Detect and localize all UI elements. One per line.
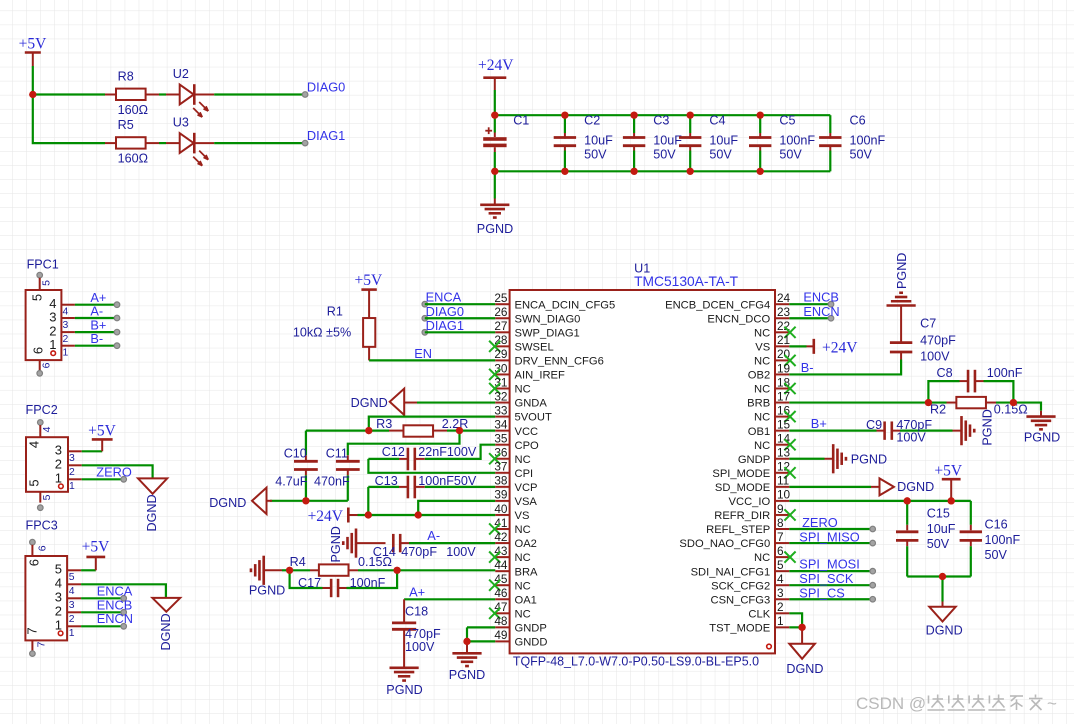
svg-text:A-: A- xyxy=(90,303,103,318)
svg-text:OB1: OB1 xyxy=(748,426,770,438)
U1 pin 37 CPI xyxy=(494,460,533,480)
U1 pin 23 ENCN_DCO xyxy=(707,305,790,325)
svg-text:100nF: 100nF xyxy=(779,133,815,147)
U1 pin 10 VCC_IO xyxy=(729,488,791,508)
svg-text:DGND: DGND xyxy=(209,496,246,510)
svg-text:10uF: 10uF xyxy=(584,133,613,147)
svg-text:VS: VS xyxy=(515,510,530,522)
svg-text:CSN_CFG3: CSN_CFG3 xyxy=(711,594,771,606)
svg-text:NC: NC xyxy=(515,580,531,592)
svg-text:46: 46 xyxy=(494,586,508,600)
svg-text:3: 3 xyxy=(49,309,56,324)
svg-text:50V: 50V xyxy=(985,548,1008,562)
power port +5V (R1) xyxy=(355,272,383,318)
wire B+ (pin 15 OB1) xyxy=(789,416,876,431)
svg-text:ENCN: ENCN xyxy=(97,611,133,626)
svg-text:2: 2 xyxy=(63,334,69,345)
svg-text:SWSEL: SWSEL xyxy=(515,341,554,353)
wire 5VOUT (pin 33) xyxy=(369,417,496,431)
FPC1 pin name 5 (inside) xyxy=(30,294,45,301)
svg-text:ZERO: ZERO xyxy=(96,464,132,479)
svg-text:50V: 50V xyxy=(927,537,950,551)
svg-text:DGND: DGND xyxy=(351,396,388,410)
net label A+ (OA1) xyxy=(409,584,425,599)
svg-text:ENCA: ENCA xyxy=(97,584,133,599)
capacitor C2 10uF xyxy=(554,113,613,171)
U1 pin 47 NC xyxy=(489,600,531,620)
svg-text:C17: C17 xyxy=(298,576,321,590)
resistor R8 xyxy=(105,70,159,118)
svg-text:5: 5 xyxy=(27,479,42,486)
svg-text:6: 6 xyxy=(27,559,42,566)
svg-text:C16: C16 xyxy=(985,518,1008,532)
svg-text:23: 23 xyxy=(777,305,791,319)
net stub DIAG0 to pin 26 xyxy=(422,304,495,321)
svg-text:FPC1: FPC1 xyxy=(27,258,59,272)
ground PGND (R4) xyxy=(249,556,285,598)
wire +24V top rail xyxy=(495,114,831,116)
U1 pin 45 NC xyxy=(489,572,531,592)
U1 pin 27 SWP_DIAG1 xyxy=(494,319,579,339)
svg-text:VCC_IO: VCC_IO xyxy=(729,496,771,508)
svg-text:100V: 100V xyxy=(920,349,950,363)
net stub ENCB (pin 24) xyxy=(789,290,839,307)
svg-text:PGND: PGND xyxy=(1024,431,1060,445)
svg-text:TST_MODE: TST_MODE xyxy=(709,622,770,634)
ground DGND (C10/C11) xyxy=(209,488,272,514)
svg-text:C12: C12 xyxy=(382,445,405,459)
svg-text:PGND: PGND xyxy=(477,222,513,236)
svg-text:DIAG0: DIAG0 xyxy=(307,79,345,94)
U1 pin 39 VSA xyxy=(494,488,537,508)
svg-text:PGND: PGND xyxy=(386,683,422,697)
net stub SPI_MOSI (pin 5) xyxy=(789,557,875,574)
capacitor C12 22nF (CPO-CPI) xyxy=(368,445,495,473)
svg-text:11: 11 xyxy=(777,474,789,488)
wire R5 to U3 xyxy=(159,142,166,144)
svg-text:40: 40 xyxy=(494,502,508,516)
svg-text:OA1: OA1 xyxy=(515,594,537,606)
node DIAG0 xyxy=(302,79,345,97)
svg-text:BRA: BRA xyxy=(515,566,539,578)
ground PGND (R2) xyxy=(1013,403,1060,445)
svg-text:470nF: 470nF xyxy=(314,475,350,489)
svg-text:AIN_IREF: AIN_IREF xyxy=(515,370,566,382)
svg-text:FPC2: FPC2 xyxy=(26,403,58,417)
svg-text:+5V: +5V xyxy=(19,36,47,53)
node junction +5V rail xyxy=(29,91,36,98)
wire PGND bottom rail xyxy=(495,170,831,172)
wire C15/C16 ground rail xyxy=(907,575,971,577)
svg-text:DIAG0: DIAG0 xyxy=(426,304,464,319)
svg-text:DIAG1: DIAG1 xyxy=(307,128,345,143)
svg-text:6: 6 xyxy=(38,545,49,551)
svg-text:R5: R5 xyxy=(118,118,134,132)
svg-text:NC: NC xyxy=(754,384,770,396)
U1 pin 40 VS xyxy=(494,502,529,522)
capacitor C7 470pF xyxy=(890,306,956,364)
svg-text:4: 4 xyxy=(42,426,53,432)
capacitor C1 (polarized bulk) xyxy=(483,113,529,171)
svg-text:C8: C8 xyxy=(937,366,953,380)
svg-text:3: 3 xyxy=(777,586,784,600)
connector FPC3 body xyxy=(25,556,67,640)
svg-text:3: 3 xyxy=(69,453,75,464)
wire GNDP pin 48 xyxy=(467,626,495,628)
power port +24V (VS) xyxy=(308,508,369,526)
svg-text:SCK_CFG2: SCK_CFG2 xyxy=(711,580,770,592)
capacitor C6 100nF xyxy=(819,113,885,171)
svg-text:100nF: 100nF xyxy=(985,533,1021,547)
U1 pin 34 VCC xyxy=(494,417,538,437)
wire EN (R1 to pin 29) xyxy=(369,346,495,361)
svg-text:+24V: +24V xyxy=(308,508,344,525)
wire DGND rail (C10/C11) xyxy=(270,500,348,502)
svg-text:100V: 100V xyxy=(405,640,435,654)
svg-text:42: 42 xyxy=(494,530,507,544)
node junction R2 left xyxy=(925,399,932,406)
svg-text:7: 7 xyxy=(25,627,40,634)
wire B- (pin 19 OB2 to C7) xyxy=(789,360,901,375)
svg-text:0.15Ω: 0.15Ω xyxy=(358,555,392,569)
ground DGND (FPC3) xyxy=(152,598,180,651)
U1 pin 38 VCP xyxy=(494,474,537,494)
svg-text:50V: 50V xyxy=(584,148,607,162)
svg-text:SDI_NAI_CFG1: SDI_NAI_CFG1 xyxy=(691,566,771,578)
capacitor C3 10uF xyxy=(623,113,682,171)
svg-text:2: 2 xyxy=(69,614,75,625)
svg-text:50V: 50V xyxy=(709,148,732,162)
svg-text:1: 1 xyxy=(69,628,75,639)
FPC1 pin 2 wire / net B+ xyxy=(49,318,120,345)
svg-text:R2: R2 xyxy=(930,402,946,416)
svg-text:6: 6 xyxy=(31,347,46,354)
svg-text:4: 4 xyxy=(55,576,62,591)
capacitor C11 470nF xyxy=(314,446,360,500)
wire +5V to R8 xyxy=(33,93,105,95)
net label A- (OA2) xyxy=(427,528,440,543)
U1 pin 32 GNDA xyxy=(494,389,547,409)
svg-text:22nF100V: 22nF100V xyxy=(418,445,477,459)
svg-text:GNDD: GNDD xyxy=(515,637,548,649)
svg-text:C9: C9 xyxy=(866,418,882,432)
svg-text:REFR_DIR: REFR_DIR xyxy=(714,510,770,522)
svg-text:CLK: CLK xyxy=(748,608,770,620)
svg-text:32: 32 xyxy=(494,389,507,403)
FPC2 pin name 5 (inside) xyxy=(27,479,42,486)
ground DGND (GNDA pin 32) xyxy=(351,389,496,415)
svg-text:GNDA: GNDA xyxy=(515,398,548,410)
svg-text:470pF: 470pF xyxy=(401,545,437,559)
power port +24V (input) xyxy=(478,57,514,115)
capacitor C9 470pF xyxy=(866,418,953,445)
resistor R3 xyxy=(369,417,469,436)
svg-text:R3: R3 xyxy=(376,417,392,431)
svg-text:2: 2 xyxy=(55,604,62,619)
ground DGND (CLK/TST_MODE) xyxy=(786,627,823,676)
svg-text:39: 39 xyxy=(494,488,507,502)
svg-text:C6: C6 xyxy=(850,113,866,127)
connector FPC3 designator xyxy=(26,518,58,532)
net stub ENCA to pin 25 xyxy=(422,290,495,307)
U1 pin 46 OA1 xyxy=(494,586,537,606)
svg-text:OA2: OA2 xyxy=(515,538,537,550)
svg-text:PGND: PGND xyxy=(329,526,343,562)
FPC3 pin 2 wire / net ENCB xyxy=(55,598,132,626)
svg-text:1: 1 xyxy=(63,348,69,359)
svg-text:5VOUT: 5VOUT xyxy=(515,412,552,424)
FPC3 pin name 7 (inside) xyxy=(25,627,40,634)
ground DGND (FPC2) xyxy=(138,478,167,531)
svg-text:SPI_MOSI: SPI_MOSI xyxy=(799,557,859,572)
wire R8 to U2 xyxy=(159,93,166,95)
IC U1 part number TMC5130A-TA-T xyxy=(634,274,739,289)
ground PGND (C18) xyxy=(386,668,422,697)
svg-text:10: 10 xyxy=(777,488,791,502)
svg-text:+5V: +5V xyxy=(934,462,962,479)
U1 pin 44 BRA xyxy=(494,558,538,578)
svg-text:+5V: +5V xyxy=(82,539,110,556)
svg-text:C10: C10 xyxy=(284,446,307,460)
watermark CSDN xyxy=(856,694,1057,713)
svg-text:B-: B- xyxy=(801,360,814,375)
capacitor C5 100nF xyxy=(749,113,815,171)
svg-text:+24V: +24V xyxy=(822,339,858,356)
svg-text:10kΩ ±5%: 10kΩ ±5% xyxy=(293,326,351,340)
svg-text:1: 1 xyxy=(69,481,75,492)
svg-text:470pF: 470pF xyxy=(920,333,956,347)
svg-text:OB2: OB2 xyxy=(748,370,770,382)
U1 pin 41 NC xyxy=(489,516,531,536)
FPC2 pin 3 wire to +5V xyxy=(55,443,102,464)
wire GNDP down xyxy=(466,627,468,641)
svg-text:C15: C15 xyxy=(927,507,950,521)
ground DGND (pin 11 SD_MODE) xyxy=(789,478,934,495)
U1 pin 48 GNDP xyxy=(494,614,546,634)
svg-text:48: 48 xyxy=(494,614,508,628)
resistor R1 xyxy=(293,305,375,361)
U1 pin 8 REFL_STEP xyxy=(706,516,789,536)
FPC1 pin 1 wire / net B- xyxy=(49,331,120,358)
svg-text:B-: B- xyxy=(90,331,103,346)
net stub SPI_CS (pin 3) xyxy=(789,585,875,602)
U1 pin 16 NC xyxy=(754,403,796,423)
svg-text:2: 2 xyxy=(777,600,784,614)
U1 pin 29 DRV_ENN_CFG6 xyxy=(494,347,603,367)
svg-text:PGND: PGND xyxy=(851,452,887,466)
svg-text:5: 5 xyxy=(69,572,75,583)
svg-text:SPI_SCK: SPI_SCK xyxy=(799,571,854,586)
svg-text:19: 19 xyxy=(777,361,790,375)
svg-text:~: ~ xyxy=(1047,694,1057,713)
svg-text:50V: 50V xyxy=(850,148,873,162)
ground PGND (C9) xyxy=(953,409,995,445)
svg-text:7: 7 xyxy=(777,530,784,544)
svg-text:TQFP-48_L7.0-W7.0-P0.50-LS9.0-: TQFP-48_L7.0-W7.0-P0.50-LS9.0-BL-EP5.0 xyxy=(513,654,759,668)
ground PGND (pin 13 GNDP) xyxy=(789,444,887,473)
svg-text:44: 44 xyxy=(494,558,508,572)
node junction VCC xyxy=(456,427,463,434)
svg-text:1: 1 xyxy=(49,337,56,352)
wire VCC branch to C11 xyxy=(348,431,460,456)
node junction R4 left xyxy=(286,567,293,574)
svg-text:3: 3 xyxy=(63,320,69,331)
FPC3 pin 5 wire to +5V xyxy=(55,562,96,583)
U1 pin 3 CSN_CFG3 xyxy=(711,586,790,606)
svg-text:ENCA_DCIN_CFG5: ENCA_DCIN_CFG5 xyxy=(515,299,616,311)
node junction CLK/TST_MODE xyxy=(799,624,806,631)
wire BRA to pin 44 xyxy=(397,569,495,571)
wire BRB (pin 17) xyxy=(789,401,928,403)
capacitor C13 100nF (VCP-VS) xyxy=(368,474,495,515)
svg-text:4: 4 xyxy=(63,307,69,318)
FPC1 pin 3 wire / net A- xyxy=(49,303,120,330)
node junction R2 right xyxy=(1010,399,1017,406)
svg-text:4: 4 xyxy=(27,441,42,448)
svg-text:34: 34 xyxy=(494,417,508,431)
svg-text:7: 7 xyxy=(37,641,48,647)
capacitor C4 10uF xyxy=(679,113,738,171)
capacitor C10 4.7uF xyxy=(275,431,318,501)
svg-text:100V: 100V xyxy=(896,431,926,445)
node junction R4 right xyxy=(394,567,401,574)
svg-text:2: 2 xyxy=(69,467,75,478)
svg-text:SPI_MODE: SPI_MODE xyxy=(712,468,770,480)
U1 pin 11 SD_MODE xyxy=(715,474,789,494)
svg-text:50V: 50V xyxy=(779,148,802,162)
U1 pin 5 SDI_NAI_CFG1 xyxy=(691,558,790,578)
FPC1 pin1 marker xyxy=(51,351,56,356)
svg-text:SWP_DIAG1: SWP_DIAG1 xyxy=(515,327,580,339)
svg-text:49: 49 xyxy=(494,628,507,642)
power port +5V (FPC3) xyxy=(82,539,110,571)
node junction C15 xyxy=(904,497,911,504)
svg-text:DGND: DGND xyxy=(145,494,159,531)
svg-text:PGND: PGND xyxy=(249,583,285,597)
FPC1 pin name 6 (inside) xyxy=(31,347,46,354)
FPC3 pin1 marker xyxy=(58,631,63,636)
svg-text:C4: C4 xyxy=(709,113,725,127)
FPC2 pin 1 wire xyxy=(55,471,127,493)
svg-text:C18: C18 xyxy=(405,605,428,619)
svg-text:+5V: +5V xyxy=(88,422,116,439)
svg-text:4: 4 xyxy=(777,572,784,586)
svg-text:A+: A+ xyxy=(409,584,425,599)
svg-text:35: 35 xyxy=(494,432,508,446)
capacitor C17 100nF xyxy=(290,570,398,597)
svg-text:2.2R: 2.2R xyxy=(442,417,469,431)
U1 pin 21 VS xyxy=(755,333,790,353)
svg-text:ZERO: ZERO xyxy=(802,515,838,530)
svg-text:B+: B+ xyxy=(811,416,827,431)
svg-text:FPC3: FPC3 xyxy=(26,518,58,532)
svg-text:29: 29 xyxy=(494,347,507,361)
svg-text:NC: NC xyxy=(754,440,770,452)
U1 pin 6 NC xyxy=(754,544,796,564)
svg-text:50V: 50V xyxy=(653,148,676,162)
FPC2 pin 4 (top) xyxy=(38,420,54,438)
svg-text:160Ω: 160Ω xyxy=(118,103,148,117)
FPC3 pin 4 wire to DGND xyxy=(55,576,166,598)
junction dots overlay xyxy=(29,91,1017,645)
svg-text:CPO: CPO xyxy=(515,440,540,452)
svg-text:160Ω: 160Ω xyxy=(118,152,148,166)
svg-text:5: 5 xyxy=(55,562,62,577)
U1 pin 19 OB2 xyxy=(748,361,790,381)
svg-text:C7: C7 xyxy=(920,317,936,331)
node DIAG1 xyxy=(302,128,345,146)
U1 pin 43 NC xyxy=(489,544,531,564)
svg-text:5: 5 xyxy=(30,294,45,301)
svg-text:C3: C3 xyxy=(653,113,669,127)
wire VS to pin 40 xyxy=(418,514,495,516)
svg-text:NC: NC xyxy=(754,327,770,339)
wire CLK (pin 2) xyxy=(789,613,802,627)
svg-text:24: 24 xyxy=(777,291,791,305)
svg-text:NC: NC xyxy=(754,356,770,368)
U1 pin 26 SWN_DIAG0 xyxy=(494,305,580,325)
wire R4 left xyxy=(282,569,290,571)
wire +5V down to R5 row xyxy=(33,95,105,144)
power port +5V (LED supply) xyxy=(19,36,47,95)
svg-text:A-: A- xyxy=(427,528,440,543)
svg-text:100V: 100V xyxy=(446,545,476,559)
U1 pin 1 TST_MODE xyxy=(709,614,789,634)
svg-text:100nF50V: 100nF50V xyxy=(418,474,477,488)
wire U2 to DIAG0 xyxy=(214,93,305,95)
svg-text:DGND: DGND xyxy=(159,613,173,650)
svg-text:C11: C11 xyxy=(326,446,348,460)
FPC2 pin 5 (bottom) xyxy=(38,492,54,511)
svg-text:1: 1 xyxy=(777,614,784,628)
svg-text:R4: R4 xyxy=(290,555,306,569)
resistor R2 0.15ohm xyxy=(928,397,1027,416)
power port +5V (VCC_IO) xyxy=(934,462,962,501)
svg-text:4: 4 xyxy=(69,586,75,597)
svg-text:NC: NC xyxy=(515,454,531,466)
wire U3 to DIAG1 xyxy=(214,142,305,144)
U1 pin 17 BRB xyxy=(747,389,790,409)
node junction C10 ground xyxy=(302,497,309,504)
wire GNDD pin 49 xyxy=(467,640,495,642)
svg-text:U2: U2 xyxy=(173,67,189,81)
U1 pin 30 AIN_IREF xyxy=(489,361,565,381)
wire 5VOUT rail to C10 xyxy=(306,430,369,432)
ground PGND (cap bank) xyxy=(477,171,513,236)
U1 pin 42 OA2 xyxy=(494,530,537,550)
ground DGND (C15/C16) xyxy=(926,577,963,638)
U1 pin 22 NC xyxy=(754,319,796,339)
U1 pin 7 SDO_NAO_CFG0 xyxy=(679,530,789,550)
FPC3 pin 1 wire / net ENCN xyxy=(55,611,133,639)
node junction DGND rail xyxy=(939,573,946,580)
svg-text:NC: NC xyxy=(515,524,531,536)
svg-text:3: 3 xyxy=(55,443,62,458)
capacitor C8 100nF xyxy=(928,366,1022,402)
U1 pin 33 5VOUT xyxy=(494,403,552,423)
svg-text:10uF: 10uF xyxy=(927,522,956,536)
net stub ZERO (pin 8) xyxy=(789,515,875,532)
svg-text:REFL_STEP: REFL_STEP xyxy=(706,524,770,536)
svg-text:3: 3 xyxy=(55,590,62,605)
svg-text:ENCN_DCO: ENCN_DCO xyxy=(707,313,770,325)
svg-text:SDO_NAO_CFG0: SDO_NAO_CFG0 xyxy=(679,538,770,550)
wire OA1 to C18 xyxy=(404,598,495,600)
FPC1 pin 6 (bottom) xyxy=(37,360,53,376)
FPC3 pin 6 (top) xyxy=(30,539,49,556)
svg-text:100nF: 100nF xyxy=(850,133,886,147)
svg-text:SPI_CS: SPI_CS xyxy=(799,585,845,600)
